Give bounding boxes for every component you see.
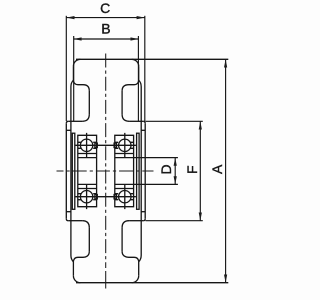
svg-text:B: B: [101, 21, 110, 37]
svg-text:C: C: [100, 0, 110, 16]
svg-text:D: D: [158, 164, 174, 174]
svg-text:F: F: [184, 165, 200, 174]
svg-text:A: A: [209, 164, 225, 174]
